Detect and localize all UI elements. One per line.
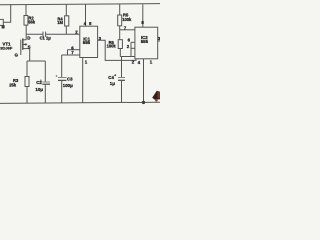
wire IC2 pin 6	[131, 41, 135, 43]
capacitor C3 plus sign	[56, 75, 58, 77]
wire IC2 pin 3 output	[158, 40, 160, 42]
resistor R3 lead bottom	[26, 87, 28, 104]
svg-text:3: 3	[158, 36, 160, 41]
wire IC2 pin 7	[120, 29, 135, 31]
resistor R6 body	[118, 40, 122, 49]
capacitor C2 plate top	[42, 81, 50, 83]
transistor VT1 drain lead	[23, 39, 26, 41]
resistor R5 lead top	[119, 4, 121, 15]
resistor R4 lead bottom to pin2 wire	[65, 26, 67, 34]
speaker red dot	[155, 99, 158, 102]
svg-text:D: D	[27, 35, 30, 40]
capacitor C4 plate top	[118, 77, 125, 79]
wire drain node to C1	[26, 33, 42, 35]
capacitor C1 plate left	[42, 32, 44, 37]
capacitor C3 lead top	[61, 55, 63, 77]
wire IC1 pin 7	[62, 54, 80, 56]
wire top supply rail	[0, 4, 160, 5]
wire source down to node	[29, 49, 31, 61]
svg-text:G: G	[15, 53, 19, 58]
svg-text:+: +	[114, 74, 116, 78]
capacitor C4 plate bottom	[118, 79, 125, 81]
svg-text:C2: C2	[36, 80, 42, 85]
resistor R2 lead top	[25, 4, 27, 15]
svg-text:100k: 100k	[107, 44, 117, 49]
sensor electrode E (cut at left edge)	[0, 19, 3, 25]
wire IC2 pins 4,1 to ground	[143, 59, 145, 103]
svg-text:100μ: 100μ	[63, 83, 73, 88]
IC1 555 box	[80, 26, 98, 57]
resistor R4 lead top	[65, 4, 67, 16]
wire electrode to top rail	[3, 4, 10, 22]
wire IC1 pin 6 to pin 7 vertical	[67, 50, 69, 55]
resistor R2 lead bottom / drain node column	[25, 25, 27, 40]
svg-text:1M: 1M	[57, 20, 63, 25]
svg-text:555: 555	[141, 39, 149, 44]
capacitor C2 lead top	[44, 61, 46, 82]
svg-text:C1 1μ: C1 1μ	[40, 36, 52, 41]
wire bottom ground rail	[0, 102, 160, 103]
capacitor C3 plate bottom	[58, 79, 67, 81]
resistor R5 body	[118, 15, 122, 26]
resistor R6 lead bottom	[119, 49, 121, 57]
capacitor C2 lead bottom	[44, 84, 46, 103]
capacitor C4 lead bottom	[121, 80, 123, 102]
svg-text:25k: 25k	[9, 82, 17, 87]
capacitor C4 lead top	[121, 57, 123, 78]
svg-text:3DJ6F: 3DJ6F	[0, 46, 13, 51]
resistor R4 body	[65, 16, 69, 26]
wire IC1 pins 4,8 to top rail	[85, 4, 87, 26]
transistor VT1 source lead	[23, 48, 29, 50]
sensor electrode dark pad	[2, 25, 5, 28]
transistor VT1 arrowhead	[24, 43, 27, 46]
capacitor C1 plate right	[45, 32, 47, 37]
svg-text:S: S	[28, 44, 31, 49]
transistor VT1 middle lead with arrow	[23, 43, 27, 45]
junction dot ground	[142, 101, 145, 104]
capacitor C2 plus sign	[40, 79, 42, 81]
capacitor C2 plate bottom	[42, 83, 50, 85]
resistor R5 lead bottom	[119, 26, 121, 40]
wire source node horizontal	[27, 60, 45, 62]
svg-text:555: 555	[83, 40, 91, 45]
svg-text:10μ: 10μ	[35, 87, 43, 92]
transistor VT1 channel bar	[22, 38, 24, 49]
transistor VT1 gate bar	[20, 40, 22, 55]
resistor R2 body	[24, 16, 28, 26]
wire IC2 pin 2	[131, 47, 135, 49]
wire C1 to IC1 pin 2	[46, 33, 80, 35]
wire IC1 pin 3 output	[98, 40, 136, 60]
svg-text:1μ: 1μ	[110, 81, 115, 86]
svg-text:56k: 56k	[28, 19, 36, 24]
wire IC2 pins 6,2 vertical	[130, 42, 132, 56]
wire IC1 pin 6	[68, 49, 80, 51]
capacitor C3 plate top	[58, 77, 67, 79]
resistor R3 body	[25, 77, 29, 87]
wire IC1 pin 1 to ground	[82, 58, 84, 104]
svg-text:C3: C3	[67, 76, 73, 81]
capacitor C3 lead bottom	[61, 80, 63, 103]
wire IC2 pin 8 to top rail	[142, 4, 144, 27]
svg-text:100k: 100k	[122, 17, 132, 22]
speaker wedge bottom right (cropped)	[152, 91, 160, 102]
resistor R3 lead top	[26, 61, 28, 77]
IC2 555 box	[135, 27, 158, 59]
wire R6 bottom to IC2 corner	[120, 56, 135, 58]
